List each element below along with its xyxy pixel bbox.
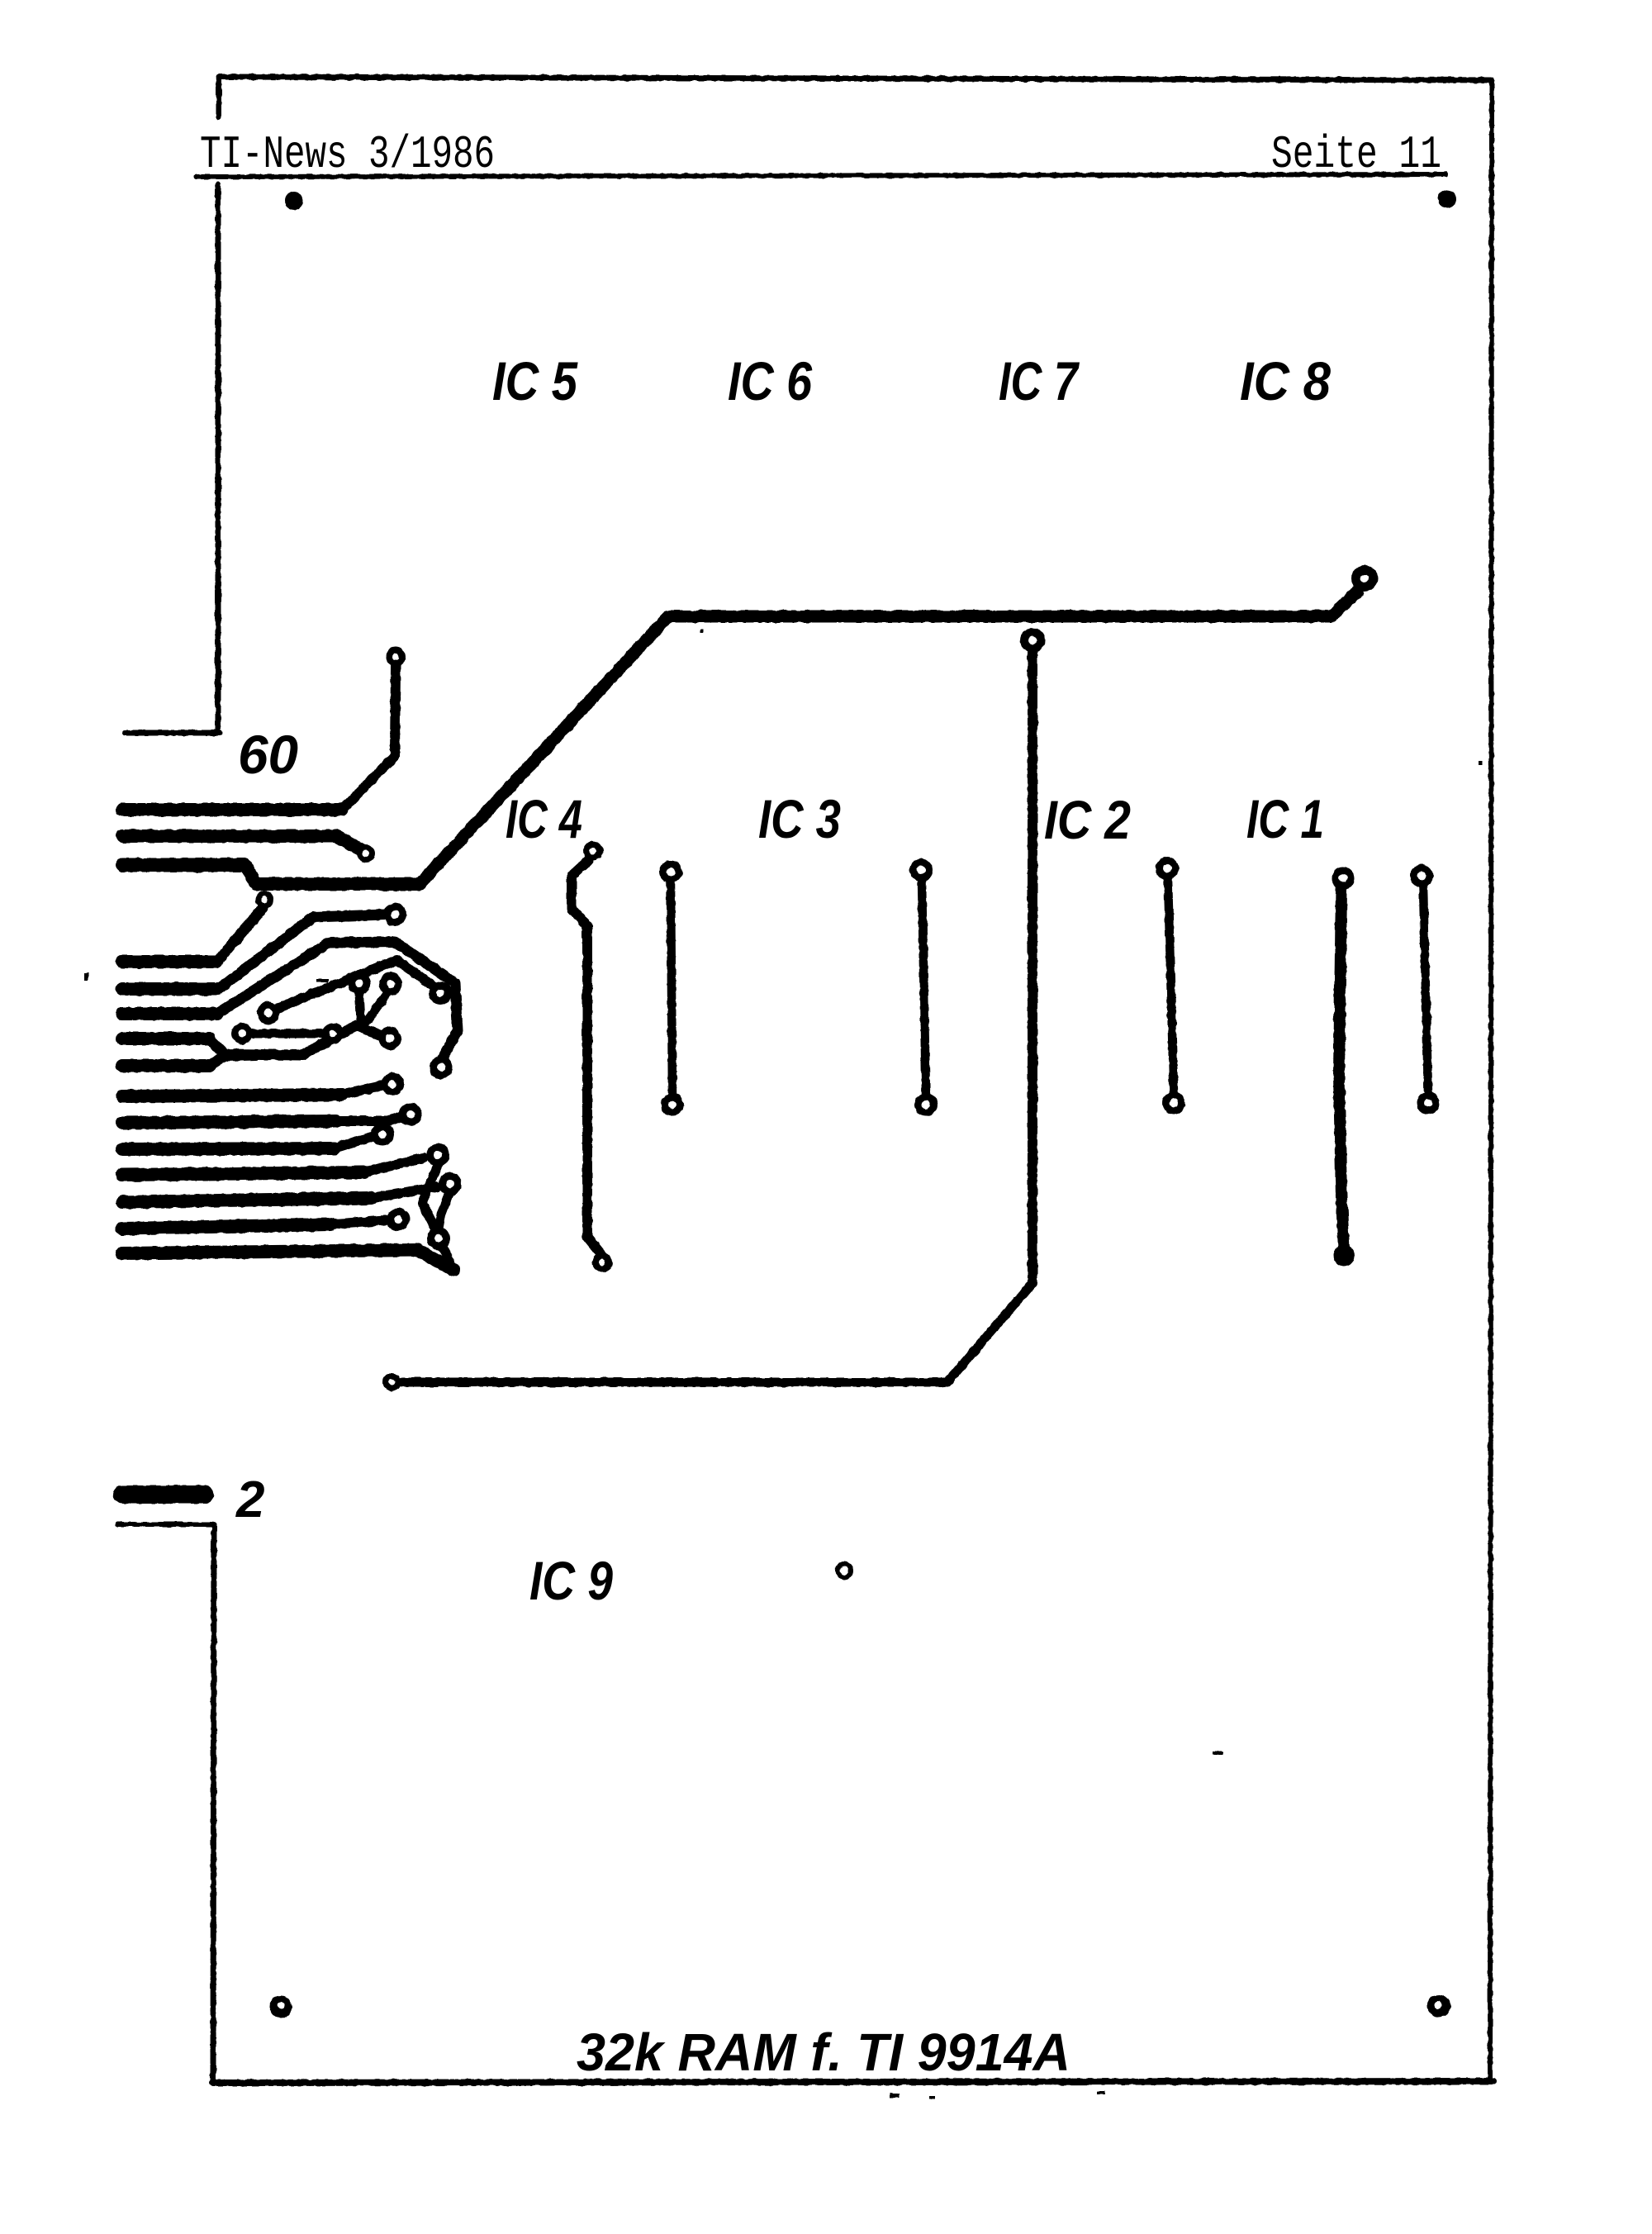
mounting dot top right xyxy=(1438,190,1456,208)
wire row K riser to pad PF xyxy=(330,1220,385,1224)
wire row H riser to pad PC xyxy=(335,1137,372,1148)
board outline connector notch bottom xyxy=(117,1522,214,1527)
pad IC1 right bottom xyxy=(1417,1091,1440,1115)
wire finger 2 bar xyxy=(122,836,363,851)
svg-text:IC 1: IC 1 xyxy=(1246,788,1324,849)
pad P6 outer hook end xyxy=(430,1056,453,1079)
wire row G riser to pad PB xyxy=(336,1117,401,1121)
wire finger row J bar xyxy=(122,1198,372,1202)
pad PE row J xyxy=(439,1172,462,1195)
wire finger row G bar xyxy=(122,1121,336,1123)
wire top bus diagonal and horizontal run xyxy=(420,592,1357,884)
pad delta xyxy=(348,972,371,995)
board outline bottom edge xyxy=(212,2081,1493,2083)
svg-text:IC 5: IC 5 xyxy=(492,350,578,411)
pad gamma xyxy=(322,1023,344,1044)
wire IC2 right vertical trace xyxy=(1168,879,1174,1093)
pad IC3 left bottom xyxy=(661,1093,684,1116)
wire finger row K bar xyxy=(122,1224,330,1229)
pad finger2 end xyxy=(357,844,375,863)
wire finger 3 jog xyxy=(245,865,420,884)
pad IC1 long top xyxy=(1332,867,1355,890)
speck below bottom border b xyxy=(928,2096,935,2099)
svg-text:IC 4: IC 4 xyxy=(506,788,582,849)
wire IC3 left vertical trace xyxy=(671,882,672,1095)
pad PG xyxy=(427,1227,450,1250)
wire row A riser to pad P1 xyxy=(217,908,263,962)
pad PL bottom bus left end xyxy=(382,1373,401,1391)
speck below bottom border c xyxy=(1097,2091,1105,2094)
speck near row B xyxy=(316,979,328,982)
pad alpha xyxy=(257,1001,280,1024)
wire IC1 long vertical trace xyxy=(1339,889,1344,1249)
svg-text:IC 9: IC 9 xyxy=(529,1550,613,1611)
svg-text:TI-News 3/1986: TI-News 3/1986 xyxy=(200,128,495,181)
wire V stroke pad PD to pad PG xyxy=(422,1165,438,1230)
svg-text:IC 6: IC 6 xyxy=(728,350,813,411)
wire finger row I bar xyxy=(122,1172,363,1175)
pad P5 inner hook end xyxy=(429,982,452,1005)
pad PC row H xyxy=(371,1123,394,1146)
pad IC2 right top xyxy=(1156,857,1179,880)
wire finger row A bar xyxy=(122,955,216,968)
pad P1 row A xyxy=(255,891,273,909)
wire V stroke pad PE to pad PG xyxy=(439,1195,449,1229)
pad IC3 right top xyxy=(909,858,933,882)
svg-text:IC 3: IC 3 xyxy=(758,788,841,849)
mounting dot top left xyxy=(285,192,303,210)
header underline xyxy=(197,174,1445,177)
pad IC3 right bottom xyxy=(914,1093,938,1116)
wire IC1 right vertical trace xyxy=(1423,886,1428,1093)
wire row I riser to pad PD xyxy=(363,1158,423,1172)
svg-text:2: 2 xyxy=(235,1471,264,1528)
board outline left edge lower xyxy=(213,1524,214,2082)
wire pad alpha spur xyxy=(276,960,436,1009)
pad IC2 long top xyxy=(1020,628,1045,653)
wire finger row E bar xyxy=(122,1059,209,1072)
pad P0 top of finger1 riser xyxy=(386,647,406,667)
svg-text:Seite 11: Seite 11 xyxy=(1271,128,1441,181)
svg-text:60: 60 xyxy=(238,724,298,785)
svg-text:IC 2: IC 2 xyxy=(1044,789,1131,850)
wire finger row H bar xyxy=(122,1148,335,1149)
wire finger row L bar xyxy=(122,1250,453,1270)
wire bar between pads beta gamma xyxy=(250,1029,324,1039)
wire row F riser to pad PA xyxy=(342,1086,382,1095)
board outline right edge xyxy=(1490,80,1492,2082)
wire pad delta tail xyxy=(357,993,361,1027)
svg-text:IC 8: IC 8 xyxy=(1240,350,1331,411)
svg-text:32k RAM f. TI 9914A: 32k RAM f. TI 9914A xyxy=(577,2022,1070,2082)
wire finger row F bar xyxy=(122,1095,342,1096)
pad IC3 left top xyxy=(659,860,682,883)
pad P2 row B xyxy=(383,903,406,926)
speck left of fingers xyxy=(84,973,88,981)
mounting hole bottom right xyxy=(1427,1994,1450,2018)
pad PF row K xyxy=(387,1208,410,1231)
mounting hole bottom left xyxy=(270,1996,292,2018)
wire row J riser to pad PE xyxy=(372,1187,435,1198)
board outline left edge upper stub xyxy=(216,77,222,117)
pad IC1 long bottom blob xyxy=(1333,1245,1355,1267)
wire bottom bus run to pad PL xyxy=(402,1283,1032,1382)
pad IC4 top xyxy=(583,841,603,861)
wire row D inner hook to pad P5 xyxy=(209,1025,382,1055)
pad epsilon xyxy=(379,972,402,996)
wire finger 1 bar xyxy=(122,803,342,816)
wire finger row D bar xyxy=(122,1032,209,1045)
pad beta xyxy=(231,1023,253,1044)
wire pad PG tail xyxy=(443,1248,453,1267)
speck below bottom border a xyxy=(890,2094,900,2098)
pad P7 row E xyxy=(378,1027,401,1050)
wire row E riser to pad P7 xyxy=(209,1055,256,1066)
wire row B riser to pad P2 xyxy=(219,915,385,989)
pad PD row I xyxy=(426,1143,449,1167)
board outline connector notch top xyxy=(126,730,220,736)
speck near top bus xyxy=(700,630,704,633)
svg-text:IC 7: IC 7 xyxy=(999,350,1080,411)
wire IC2 long vertical trace xyxy=(1028,653,1037,1283)
pad PBIG top bus right end xyxy=(1351,565,1378,592)
pad IC1 right top xyxy=(1410,864,1433,887)
pad PB row G xyxy=(399,1103,422,1126)
wire IC4 vertical trace xyxy=(572,860,601,1253)
board outline left edge upper xyxy=(216,184,221,730)
wire IC3 right vertical trace xyxy=(922,881,926,1095)
wire finger row B bar xyxy=(122,982,217,996)
wire finger 1 riser to pad xyxy=(342,666,396,810)
wire row C outer hook to pad P6 xyxy=(217,942,458,1059)
wire finger 3 bar xyxy=(122,858,245,872)
pad PA row F xyxy=(381,1072,404,1096)
wire connector finger bar 2 xyxy=(122,1485,205,1504)
speck right margin xyxy=(1213,1752,1222,1755)
wire finger row C bar xyxy=(122,1007,217,1020)
wire pad epsilon tail xyxy=(359,994,387,1026)
pad IC4 bottom xyxy=(592,1252,612,1272)
pad lone via near IC9 xyxy=(835,1561,853,1580)
pad IC2 right bottom xyxy=(1162,1091,1185,1115)
speck below IC8 xyxy=(1479,761,1483,765)
board outline top edge xyxy=(220,77,1492,80)
